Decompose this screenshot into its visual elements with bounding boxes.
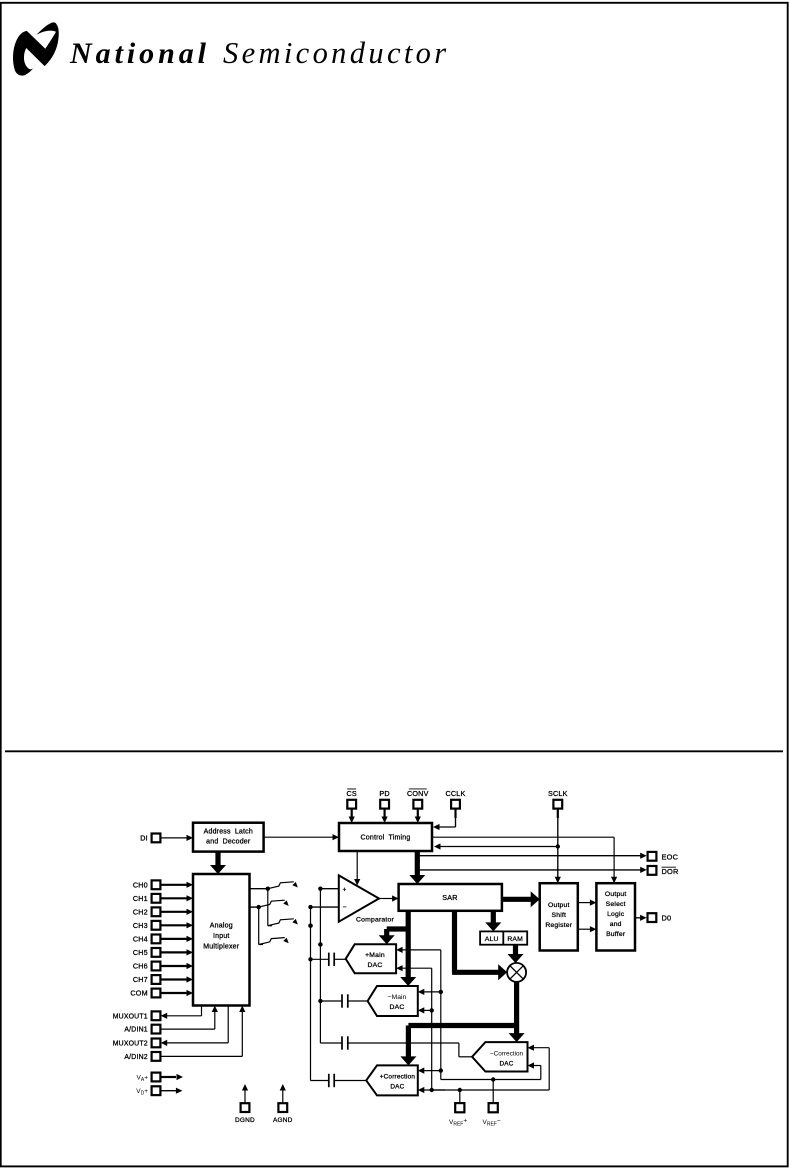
svg-text:DAC: DAC bbox=[390, 1084, 404, 1091]
svg-text:Address Latch: Address Latch bbox=[204, 829, 253, 836]
svg-text:Input: Input bbox=[213, 933, 230, 940]
svg-text:CH4: CH4 bbox=[133, 934, 148, 943]
svg-text:and Decoder: and Decoder bbox=[206, 839, 251, 846]
svg-text:CS: CS bbox=[347, 789, 357, 798]
svg-text:DAC: DAC bbox=[368, 962, 383, 969]
svg-text:and: and bbox=[610, 921, 622, 928]
svg-text:ALU: ALU bbox=[485, 936, 499, 943]
svg-text:SAR: SAR bbox=[442, 893, 457, 902]
svg-text:+: + bbox=[343, 887, 347, 894]
svg-text:CH7: CH7 bbox=[133, 975, 148, 984]
svg-text:CCLK: CCLK bbox=[446, 789, 466, 798]
svg-text:−Correction: −Correction bbox=[490, 1050, 524, 1057]
svg-text:DAC: DAC bbox=[499, 1060, 513, 1067]
svg-text:Output: Output bbox=[605, 891, 627, 898]
svg-text:COM: COM bbox=[130, 989, 147, 998]
svg-text:Buffer: Buffer bbox=[606, 931, 626, 938]
svg-text:PD: PD bbox=[379, 789, 389, 798]
svg-text:DGND: DGND bbox=[235, 1117, 255, 1124]
svg-text:AGND: AGND bbox=[273, 1117, 293, 1124]
svg-text:Register: Register bbox=[545, 922, 572, 929]
svg-text:DAC: DAC bbox=[390, 1004, 405, 1011]
svg-text:A/DIN2: A/DIN2 bbox=[124, 1054, 147, 1061]
svg-text:+Main: +Main bbox=[365, 952, 385, 959]
svg-text:CH3: CH3 bbox=[133, 921, 148, 930]
svg-text:CH2: CH2 bbox=[133, 907, 148, 916]
svg-text:D0: D0 bbox=[662, 913, 672, 922]
svg-text:CH0: CH0 bbox=[133, 880, 148, 889]
svg-text:MUXOUT1: MUXOUT1 bbox=[113, 1013, 148, 1020]
svg-text:CH5: CH5 bbox=[133, 948, 148, 957]
svg-text:RAM: RAM bbox=[507, 936, 523, 943]
svg-text:EOC: EOC bbox=[662, 852, 679, 861]
svg-text:Shift: Shift bbox=[551, 912, 566, 919]
svg-text:National: National bbox=[69, 37, 210, 70]
svg-text:CH1: CH1 bbox=[133, 894, 148, 903]
svg-text:DI: DI bbox=[140, 834, 148, 843]
svg-text:SCLK: SCLK bbox=[548, 789, 568, 798]
svg-text:−: − bbox=[343, 904, 347, 911]
svg-text:Control Timing: Control Timing bbox=[361, 835, 411, 842]
svg-text:Output: Output bbox=[548, 902, 570, 909]
svg-text:+Correction: +Correction bbox=[380, 1074, 416, 1081]
svg-text:CONV: CONV bbox=[407, 789, 429, 798]
svg-text:DOR: DOR bbox=[662, 867, 679, 876]
svg-text:Comparator: Comparator bbox=[356, 916, 394, 923]
svg-text:Analog: Analog bbox=[210, 923, 233, 930]
svg-text:A/DIN1: A/DIN1 bbox=[124, 1027, 147, 1034]
svg-text:Select: Select bbox=[606, 901, 626, 908]
svg-text:MUXOUT2: MUXOUT2 bbox=[113, 1040, 148, 1047]
svg-text:Multiplexer: Multiplexer bbox=[203, 944, 240, 951]
svg-text:−Main: −Main bbox=[388, 994, 407, 1001]
svg-text:CH6: CH6 bbox=[133, 962, 148, 971]
svg-text:Logic: Logic bbox=[607, 911, 625, 918]
svg-text:Semiconductor: Semiconductor bbox=[223, 36, 450, 70]
